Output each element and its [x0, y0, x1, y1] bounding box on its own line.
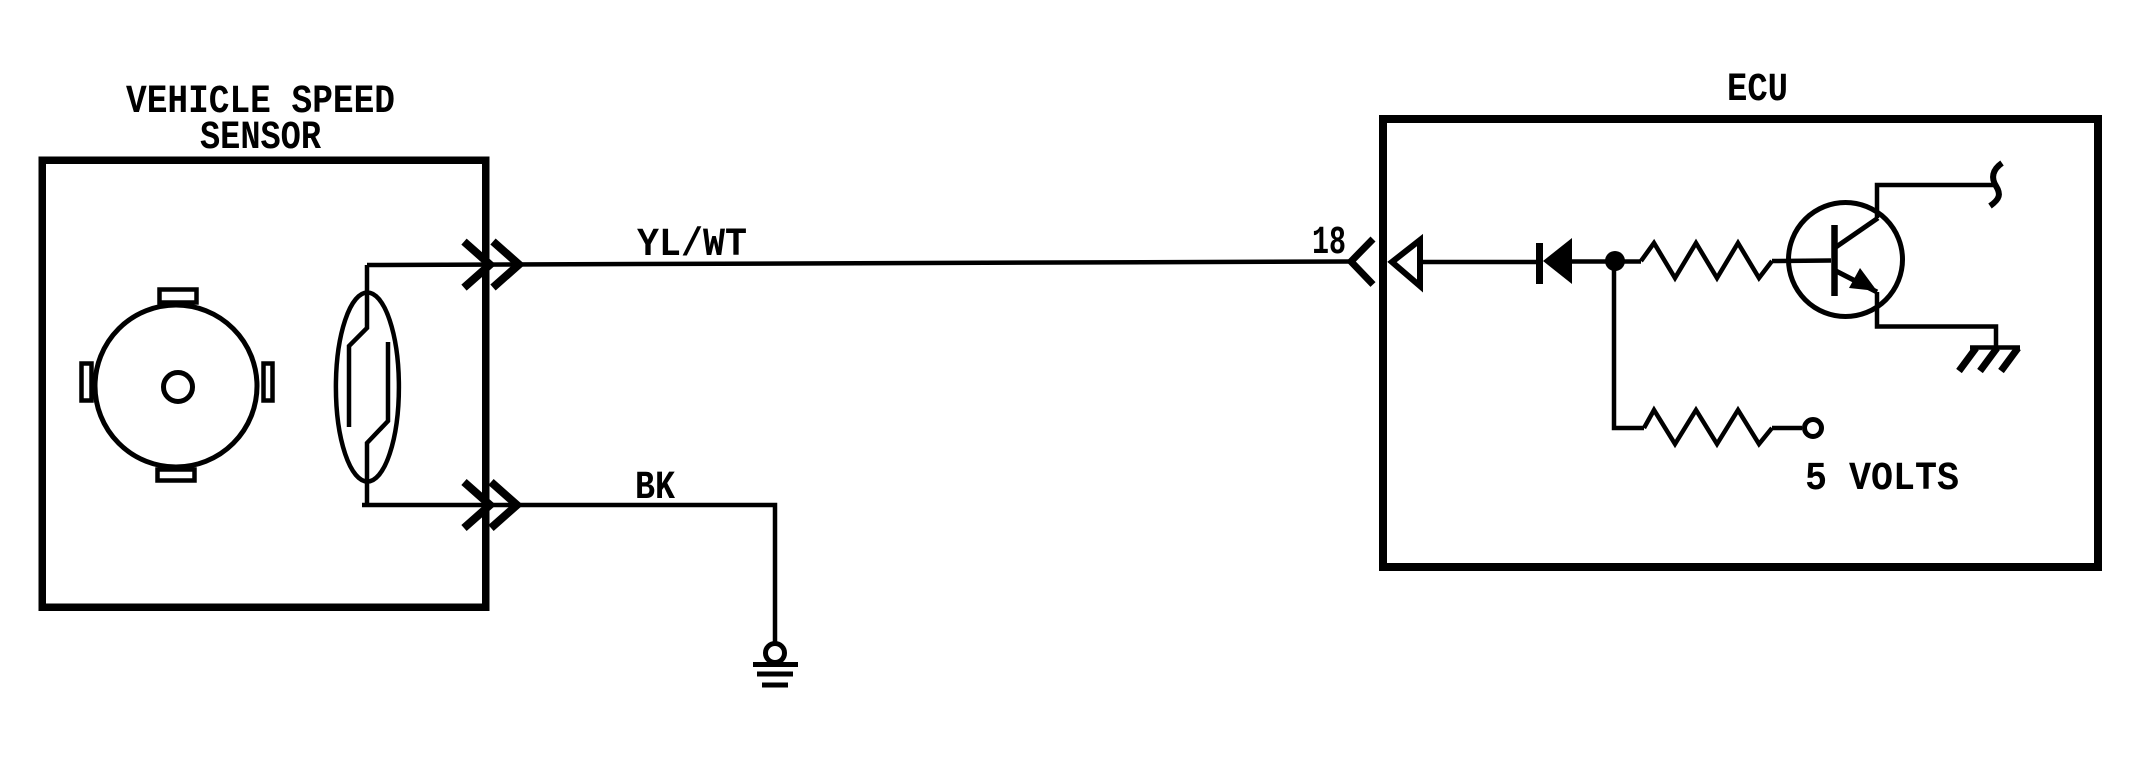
- resistor R2 (pullup): [1644, 410, 1772, 444]
- connector ellipse: [336, 293, 399, 482]
- connector chevron bottom 2: [491, 482, 517, 528]
- label VEHICLE SPEED SENSOR: [126, 80, 395, 161]
- wire BK horizontal: [362, 505, 775, 643]
- chassis ground: [1959, 348, 2020, 372]
- wire emitter to ground: [1877, 292, 1996, 347]
- wire R1 to base: [1772, 258, 1831, 263]
- junction node dot: [1605, 251, 1625, 271]
- continuation squiggle: [1990, 163, 2002, 206]
- sensor tab left: [82, 364, 92, 401]
- sensor tab right: [264, 364, 273, 401]
- input arrow (hollow triangle): [1392, 240, 1420, 286]
- diode D1: [1536, 238, 1572, 284]
- svg-text:18: 18: [1312, 221, 1346, 266]
- svg-text:BK: BK: [635, 466, 675, 511]
- svg-text:SENSOR: SENSOR: [200, 116, 321, 161]
- wire node down to R2: [1614, 261, 1644, 428]
- sensor tab bottom: [158, 470, 195, 481]
- ECU box: [1383, 119, 2098, 567]
- wire YL/WT horizontal: [367, 262, 1349, 266]
- sensor body circle: [95, 305, 257, 467]
- connector chevron bottom 1: [464, 482, 490, 528]
- transistor Q1: [1789, 203, 1903, 317]
- pin 18 chevron: [1351, 239, 1373, 285]
- sensor center hole: [164, 373, 193, 402]
- svg-text:YL/WT: YL/WT: [637, 223, 747, 268]
- vehicle speed sensor box: [42, 160, 486, 607]
- wire arrow to diode: [1420, 260, 1536, 265]
- coil element right polyline: [367, 342, 388, 505]
- ground symbol: [753, 644, 798, 686]
- sensor tab top: [160, 290, 197, 303]
- wire diode to node: [1572, 259, 1641, 264]
- resistor R1 (base): [1641, 243, 1772, 278]
- connector chevron top 2: [493, 242, 519, 288]
- svg-text:ECU: ECU: [1727, 68, 1788, 113]
- wire R2 to terminal: [1772, 426, 1802, 431]
- 5V terminal circle: [1805, 420, 1822, 437]
- coil element left polyline: [349, 265, 367, 427]
- svg-text:5 VOLTS: 5 VOLTS: [1805, 457, 1959, 502]
- connector chevron top 1: [464, 242, 490, 288]
- wire collector up: [1877, 185, 1994, 218]
